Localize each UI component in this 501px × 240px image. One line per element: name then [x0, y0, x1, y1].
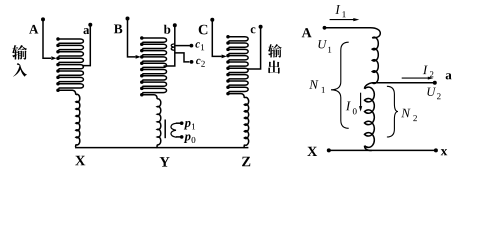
- terminal B: [126, 17, 130, 21]
- label c1: [195, 42, 204, 50]
- wire: c lead down and left to winding: [247, 27, 261, 69]
- wire: C lead into winding with arrow: [212, 20, 221, 57]
- wire: I1 current arrow: [330, 19, 355, 21]
- label N2: [401, 109, 417, 121]
- label B: [114, 25, 122, 34]
- wire: I0 current arrow (down): [360, 93, 362, 108]
- brace N1 (left curly brace): [331, 42, 349, 128]
- terminal C: [210, 18, 214, 22]
- terminal a: [88, 23, 92, 27]
- terminal X (right): [327, 148, 331, 152]
- label a: [84, 28, 90, 34]
- label I2: [423, 66, 434, 78]
- winding N2 lower portion: [365, 83, 373, 89]
- terminal A: [41, 17, 45, 21]
- terminal c2: [190, 60, 194, 64]
- terminal x (right): [434, 148, 438, 152]
- terminal p1: [180, 121, 184, 125]
- tap contact hooks (epsilon) on b lead: [171, 44, 175, 50]
- label 输入 (input): [12, 45, 27, 60]
- label I1: [335, 5, 346, 17]
- label X: [75, 156, 85, 166]
- label p0: [184, 134, 196, 143]
- terminal a (right): [433, 81, 437, 85]
- winding phase B lower section (series squiggle): [142, 95, 157, 99]
- wire: p0 lead: [176, 136, 180, 138]
- label X (right): [307, 147, 317, 156]
- wire: I2 current arrow: [402, 77, 429, 79]
- terminal A (right): [323, 26, 327, 30]
- label 输出 (output): [268, 44, 282, 57]
- brace N2 (right curly brace): [387, 86, 398, 137]
- terminal c: [259, 25, 263, 29]
- wire: tap lead to terminal a: [372, 82, 433, 84]
- wire: c2 lead: [175, 53, 190, 62]
- terminal b: [173, 23, 177, 27]
- tap contact hooks p1/p0 (epsilon): [171, 123, 176, 137]
- label p1: [184, 121, 195, 130]
- label A: [29, 25, 38, 34]
- wire: b lead down and left to winding: [164, 25, 175, 66]
- wire: bottom lead X to x: [329, 149, 436, 151]
- label Y: [160, 157, 170, 167]
- wire: B lead into winding with arrow: [128, 19, 136, 57]
- label C: [199, 25, 208, 35]
- wire: c1 lead: [175, 45, 190, 47]
- wire: top lead A to winding: [325, 28, 381, 38]
- wire: p1 lead: [176, 122, 180, 124]
- label U2: [427, 88, 440, 100]
- terminal p0: [180, 135, 184, 139]
- brush bar of p tap: [164, 120, 166, 139]
- label a (right): [446, 73, 452, 79]
- winding phase C lower section (series squiggle): [228, 94, 244, 98]
- label N1: [309, 80, 325, 93]
- label I0: [346, 102, 357, 115]
- winding phase A upper section (turns with dots): [58, 39, 83, 90]
- terminal c1: [190, 44, 194, 48]
- label c: [251, 27, 256, 33]
- label x (right): [441, 149, 448, 155]
- label A (right): [302, 28, 312, 37]
- wire: a lead down and left to winding: [82, 25, 90, 66]
- winding phase A lower section (series squiggle): [58, 90, 76, 95]
- label U1: [318, 40, 331, 53]
- label Z: [242, 157, 250, 167]
- label b: [164, 25, 171, 34]
- winding N1 upper portion: [372, 37, 378, 83]
- winding phase C upper section (turns with dots): [228, 37, 248, 94]
- winding phase B upper section (turns with dots): [142, 38, 167, 95]
- wire: bottom bus X-Y-Z: [75, 147, 248, 149]
- label c2: [196, 59, 205, 67]
- wire: A lead into winding with arrow: [43, 19, 51, 58]
